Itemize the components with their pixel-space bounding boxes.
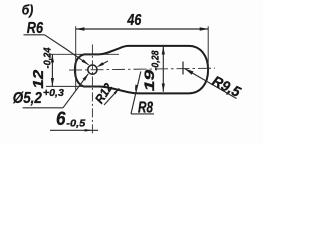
radius R6: underline: [24, 34, 45, 36]
radius R9,5: leader: [185, 69, 237, 99]
dimension Ø5,2: underline: [23, 107, 63, 109]
dimension 6: dimension line: [50, 129, 98, 131]
part outline (lever plate): [75, 46, 208, 94]
svg-text:R9,5: R9,5: [209, 74, 243, 102]
dimension 19: top arrow: [162, 46, 165, 54]
dimension 12: dimension line: [51, 54, 53, 86]
svg-text:-0,5: -0,5: [66, 118, 85, 129]
svg-text:-0,28: -0,28: [150, 50, 161, 70]
horizontal centerline: [69, 68, 215, 70]
svg-text:Ø5,2: Ø5,2: [13, 90, 42, 107]
dimension 19: bottom arrow: [162, 84, 165, 92]
vertical centerline through hole: [91, 44, 93, 135]
radius R8: arrow: [135, 85, 138, 92]
svg-text:6: 6: [56, 108, 66, 130]
dimension 19: dimension line: [162, 46, 164, 92]
radius R6: leader: [45, 35, 89, 65]
dimension 46: extension lines: [76, 26, 209, 91]
dimension 12: extension lines: [46, 54, 119, 86]
dimension 12: bottom arrow: [51, 78, 54, 86]
dimension 46: dimension line: [76, 28, 209, 30]
dimension 46: left arrow: [76, 27, 85, 30]
radius R8: underline: [131, 113, 154, 115]
svg-text:R12: R12: [92, 81, 115, 106]
svg-text:б): б): [22, 2, 34, 17]
radius R12: leader: [104, 88, 119, 105]
radius R8: leader: [131, 72, 141, 114]
dimension Ø5,2: leader: [63, 74, 88, 108]
radius R9,5: arrow: [185, 69, 194, 75]
svg-text:12: 12: [30, 69, 47, 89]
svg-text:46: 46: [127, 12, 142, 29]
dimension 12: top arrow: [51, 54, 54, 62]
svg-text:-0,24: -0,24: [42, 47, 54, 68]
radius R12: arrow: [114, 88, 120, 94]
dimension 46: right arrow: [200, 27, 209, 30]
svg-text:19: 19: [141, 70, 157, 92]
svg-text:+0,3: +0,3: [43, 88, 64, 99]
dimension 6: arrow: [85, 129, 92, 132]
right arc center mark: [182, 62, 184, 75]
radius R6: arrow: [82, 59, 89, 65]
dimension Ø5,2: arrow: [83, 74, 89, 81]
dimension Ø5,2: opposite arrow: [103, 61, 108, 64]
hole Ø5.2: [88, 65, 97, 74]
